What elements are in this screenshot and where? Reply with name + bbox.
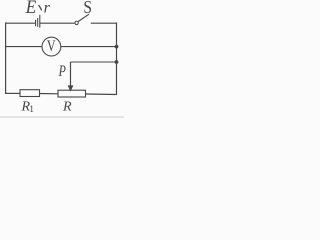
wire battery to switch bbox=[40, 22, 75, 24]
wire voltmeter branch right bbox=[61, 46, 117, 48]
wire voltmeter branch left bbox=[6, 46, 42, 48]
wire switch to top-right corner bbox=[91, 22, 117, 24]
label S bbox=[83, 0, 92, 17]
voltmeter V bbox=[42, 37, 61, 56]
svg-text:S: S bbox=[83, 0, 92, 17]
wire top-left segment bbox=[6, 22, 35, 24]
rheostat R bbox=[58, 90, 86, 97]
junction dot wiper/right wire bbox=[115, 60, 119, 64]
wire left vertical bbox=[5, 22, 7, 93]
wire R to bottom-right corner bbox=[86, 93, 117, 96]
junction dot voltmeter/right wire bbox=[115, 45, 119, 49]
svg-text:r: r bbox=[44, 0, 51, 17]
label E,r bbox=[25, 0, 51, 18]
svg-text:1: 1 bbox=[29, 105, 34, 115]
wiper P arrow bbox=[68, 62, 74, 92]
wire right vertical bbox=[116, 22, 118, 94]
svg-text:P: P bbox=[58, 63, 66, 80]
scan artifact band at bottom bbox=[0, 116, 124, 118]
label P bbox=[58, 63, 66, 80]
svg-text:R: R bbox=[62, 100, 72, 115]
wire wiper branch bbox=[71, 61, 117, 63]
battery E,r bbox=[36, 15, 40, 28]
switch S bbox=[75, 14, 89, 24]
wire bottom-left to R1 bbox=[5, 92, 20, 94]
label R1 bbox=[21, 100, 35, 115]
wire R1 to R bbox=[40, 93, 59, 95]
label R bbox=[62, 100, 72, 115]
resistor R1 bbox=[20, 90, 40, 97]
svg-text:V: V bbox=[47, 38, 56, 55]
svg-text:E: E bbox=[25, 0, 37, 18]
